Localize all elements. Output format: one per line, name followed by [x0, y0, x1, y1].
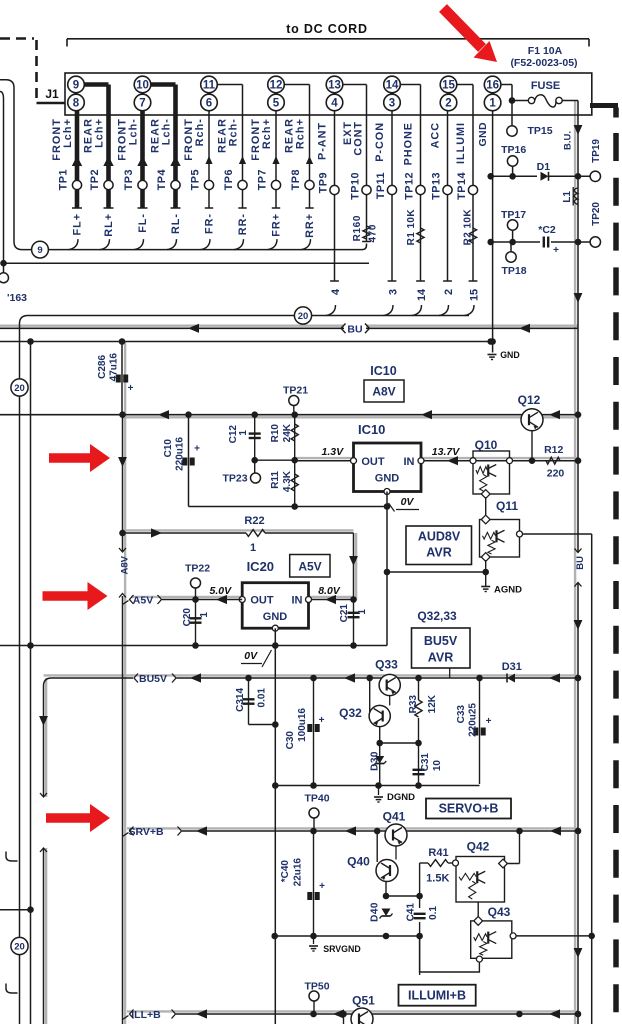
svg-text:Q32: Q32 [339, 706, 362, 720]
svg-text:TP40: TP40 [304, 793, 329, 805]
svg-text:ILLUMI: ILLUMI [455, 122, 467, 164]
svg-text:FR+: FR+ [271, 213, 283, 237]
svg-text:AVR: AVR [426, 546, 451, 560]
svg-text:C21: C21 [339, 604, 350, 623]
svg-text:220u25: 220u25 [468, 703, 479, 737]
svg-text:47u16: 47u16 [109, 353, 120, 382]
svg-text:TP5: TP5 [190, 169, 202, 190]
svg-text:TP12: TP12 [404, 172, 416, 200]
svg-text:FUSE: FUSE [531, 80, 560, 92]
svg-text:9: 9 [73, 80, 79, 92]
svg-text:0V: 0V [244, 650, 258, 662]
svg-text:9: 9 [37, 245, 42, 256]
svg-text:P-ANT: P-ANT [317, 122, 329, 160]
svg-text:6: 6 [206, 98, 212, 110]
svg-text:14: 14 [386, 80, 399, 92]
svg-text:GND: GND [263, 611, 288, 623]
svg-text:14: 14 [416, 289, 428, 301]
svg-text:IN: IN [404, 456, 415, 468]
svg-text:5.0V: 5.0V [209, 585, 232, 597]
svg-text:TP7: TP7 [257, 169, 269, 190]
svg-text:IN: IN [292, 595, 303, 607]
svg-text:*C2: *C2 [538, 224, 556, 236]
svg-text:+: + [128, 383, 134, 394]
svg-text:C286: C286 [97, 355, 108, 379]
svg-text:F1 10A: F1 10A [528, 45, 563, 57]
svg-text:R10: R10 [270, 424, 281, 443]
svg-text:D40: D40 [370, 902, 381, 922]
svg-text:Q40: Q40 [347, 855, 370, 869]
svg-text:R12: R12 [544, 444, 563, 456]
svg-text:+: + [194, 444, 200, 455]
svg-text:to DC CORD: to DC CORD [286, 22, 368, 36]
svg-text:1: 1 [489, 98, 496, 110]
svg-text:4: 4 [330, 289, 342, 295]
svg-text:Rch-: Rch- [194, 118, 206, 146]
svg-text:R33: R33 [408, 695, 419, 714]
svg-text:TP15: TP15 [527, 125, 552, 137]
svg-text:R2 10K: R2 10K [463, 209, 474, 246]
svg-text:5: 5 [273, 98, 280, 110]
svg-text:GND: GND [477, 122, 489, 147]
svg-text:B.U.: B.U. [563, 131, 574, 150]
svg-text:J1: J1 [45, 87, 59, 101]
svg-text:*C40: *C40 [280, 860, 291, 883]
svg-text:C314: C314 [235, 688, 246, 712]
svg-text:TP20: TP20 [591, 202, 602, 226]
svg-text:TP6: TP6 [223, 169, 235, 190]
svg-text:4.3K: 4.3K [282, 470, 293, 492]
svg-text:IC10: IC10 [370, 364, 396, 378]
svg-text:TP19: TP19 [591, 139, 602, 163]
svg-text:IC10: IC10 [358, 422, 385, 437]
svg-text:BU: BU [575, 556, 586, 570]
svg-text:Q43: Q43 [488, 905, 511, 919]
svg-text:SRVGND: SRVGND [323, 944, 360, 954]
svg-text:RR-: RR- [237, 213, 249, 235]
svg-text:12K: 12K [427, 694, 438, 713]
svg-text:10: 10 [432, 760, 443, 772]
svg-text:DGND: DGND [387, 792, 415, 803]
svg-text:Lch-: Lch- [128, 118, 140, 145]
svg-text:SERVO+B: SERVO+B [439, 802, 499, 816]
svg-text:IC20: IC20 [247, 559, 274, 574]
svg-text:C31: C31 [420, 753, 431, 772]
svg-text:GND: GND [375, 473, 400, 485]
svg-text:15: 15 [469, 289, 481, 301]
svg-text:R1 10K: R1 10K [406, 209, 417, 246]
svg-text:2: 2 [443, 289, 455, 295]
svg-text:RL-: RL- [170, 213, 182, 234]
svg-text:8: 8 [73, 98, 80, 110]
svg-text:Q32,33: Q32,33 [417, 609, 457, 623]
svg-text:Q41: Q41 [383, 810, 406, 824]
svg-text:P-CON: P-CON [374, 122, 386, 162]
svg-text:220: 220 [547, 468, 565, 480]
svg-text:RL+: RL+ [103, 213, 115, 237]
svg-text:TP21: TP21 [283, 385, 308, 397]
svg-text:D1: D1 [537, 161, 551, 173]
svg-text:Q12: Q12 [518, 393, 541, 407]
svg-text:C30: C30 [285, 731, 296, 750]
svg-text:R160: R160 [352, 215, 363, 241]
svg-text:1: 1 [238, 430, 249, 436]
svg-text:+: + [319, 715, 325, 726]
svg-text:TP11: TP11 [375, 172, 387, 199]
svg-text:AVR: AVR [428, 651, 453, 665]
svg-text:FL-: FL- [137, 213, 149, 233]
svg-text:Q11: Q11 [496, 499, 518, 513]
svg-text:1: 1 [357, 609, 368, 615]
svg-text:FR-: FR- [204, 213, 216, 234]
svg-text:220u16: 220u16 [175, 437, 186, 471]
svg-text:2: 2 [445, 98, 451, 110]
svg-text:ACC: ACC [430, 122, 442, 148]
svg-text:SRV+B: SRV+B [128, 826, 164, 838]
svg-text:OUT: OUT [250, 595, 274, 607]
svg-text:TP3: TP3 [123, 169, 135, 190]
svg-text:20: 20 [14, 942, 25, 953]
svg-text:7: 7 [139, 98, 145, 110]
svg-text:(F52-0023-05): (F52-0023-05) [510, 57, 577, 69]
svg-text:R41: R41 [428, 847, 448, 859]
svg-text:24K: 24K [282, 423, 293, 442]
svg-text:1: 1 [250, 542, 256, 554]
svg-text:TP50: TP50 [304, 981, 329, 993]
svg-text:TP22: TP22 [185, 563, 210, 575]
svg-text:3: 3 [389, 98, 395, 110]
svg-text:Q51: Q51 [352, 994, 375, 1008]
svg-text:TP2: TP2 [89, 169, 101, 190]
svg-text:TP4: TP4 [156, 169, 168, 190]
svg-text:8.0V: 8.0V [318, 585, 341, 597]
svg-text:13: 13 [328, 80, 341, 92]
svg-text:16: 16 [486, 80, 499, 92]
svg-text:22u16: 22u16 [293, 858, 304, 887]
svg-text:20: 20 [298, 311, 309, 322]
svg-text:BU5V: BU5V [424, 634, 458, 648]
svg-text:TP23: TP23 [222, 473, 247, 485]
svg-text:1.3V: 1.3V [321, 446, 344, 458]
svg-text:R22: R22 [244, 515, 264, 527]
svg-text:A5V: A5V [298, 560, 321, 574]
svg-text:A8V: A8V [120, 555, 131, 574]
svg-text:TP14: TP14 [456, 172, 468, 200]
svg-text:C41: C41 [406, 903, 417, 922]
svg-text:A8V: A8V [372, 385, 395, 399]
svg-text:20: 20 [14, 383, 25, 394]
svg-text:TP16: TP16 [501, 144, 526, 156]
svg-text:Lch+: Lch+ [62, 118, 74, 148]
svg-text:0V: 0V [401, 496, 415, 508]
svg-text:A5V: A5V [133, 595, 153, 607]
svg-text:TP18: TP18 [501, 265, 526, 277]
svg-text:1.5K: 1.5K [426, 873, 449, 885]
svg-text:1: 1 [199, 612, 210, 618]
svg-text:OUT: OUT [361, 456, 385, 468]
svg-text:TP8: TP8 [290, 169, 302, 190]
svg-text:ILL+B: ILL+B [131, 1009, 161, 1021]
svg-text:+: + [319, 881, 325, 892]
svg-text:C33: C33 [456, 705, 467, 724]
svg-text:FL+: FL+ [72, 213, 84, 236]
svg-text:4: 4 [331, 98, 338, 110]
svg-text:RR+: RR+ [304, 213, 316, 238]
svg-text:C10: C10 [163, 439, 174, 458]
svg-text:PHONE: PHONE [403, 122, 415, 165]
svg-text:Q33: Q33 [375, 658, 398, 672]
svg-text:TP10: TP10 [350, 172, 362, 200]
svg-text:R11: R11 [270, 471, 281, 489]
svg-text:3: 3 [388, 289, 400, 295]
svg-text:0.1: 0.1 [428, 906, 439, 920]
svg-text:11: 11 [203, 80, 216, 92]
svg-text:GND: GND [500, 350, 520, 360]
svg-text:BU5V: BU5V [139, 673, 167, 685]
svg-text:Rch+: Rch+ [295, 118, 307, 149]
svg-text:AUD8V: AUD8V [418, 530, 461, 544]
svg-text:CONT: CONT [353, 121, 365, 156]
svg-text:Lch-: Lch- [161, 118, 173, 145]
svg-text:Rch+: Rch+ [261, 118, 273, 149]
svg-text:ILLUMI+B: ILLUMI+B [408, 989, 466, 1003]
svg-text:470: 470 [368, 224, 379, 243]
svg-text:Lch+: Lch+ [94, 118, 106, 148]
svg-text:D30: D30 [370, 751, 381, 771]
svg-text:10: 10 [136, 80, 149, 92]
svg-text:'163: '163 [7, 292, 27, 304]
svg-text:TP9: TP9 [318, 172, 330, 193]
svg-text:100u16: 100u16 [297, 708, 308, 742]
svg-text:+: + [553, 245, 559, 256]
svg-text:C20: C20 [182, 608, 193, 627]
svg-text:TP1: TP1 [58, 169, 70, 190]
svg-text:D31: D31 [502, 661, 522, 673]
svg-text:Q42: Q42 [467, 840, 490, 854]
svg-text:13.7V: 13.7V [432, 446, 460, 458]
svg-text:Q10: Q10 [475, 438, 498, 452]
svg-text:TP13: TP13 [431, 172, 443, 200]
svg-text:15: 15 [442, 80, 455, 92]
svg-text:12: 12 [270, 80, 283, 92]
svg-text:0.01: 0.01 [257, 688, 268, 708]
svg-text:L1: L1 [562, 191, 573, 203]
svg-text:AGND: AGND [494, 585, 522, 596]
svg-text:BU: BU [347, 324, 362, 336]
svg-text:Rch-: Rch- [228, 118, 240, 146]
svg-text:+: + [486, 716, 492, 727]
